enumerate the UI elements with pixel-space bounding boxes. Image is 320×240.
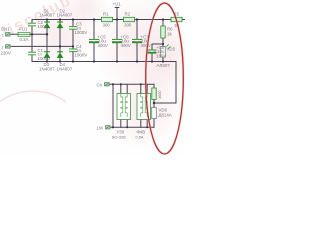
junctions subcircuit top line [112,83,142,85]
junctions top rail [46,18,164,20]
junction LED branch to C8 [162,43,164,45]
wire box1 pins [120,84,122,93]
resistor R5 [171,17,182,21]
transformer box T1 [117,93,131,120]
svg-text:Д814А: Д814А [159,113,172,118]
diode D1 [44,22,50,28]
capacitor C7 electrolytic [132,39,142,42]
svg-text:1: 1 [2,34,4,38]
svg-text:VD5: VD5 [167,47,176,52]
capacitor C1 [28,52,36,55]
capacitor C4 (snubber bottom) [69,49,77,52]
wire bypass link [112,84,114,127]
junction AC1 to bridge column 1 [46,33,48,35]
svg-text:R1: R1 [103,12,109,17]
junctions bottom rail [46,60,164,62]
wire subcircuit bottom line [111,126,154,128]
svg-text:FU1: FU1 [19,27,28,32]
wire C8 stub [152,44,163,62]
wire C6 / +U column [116,8,118,62]
wire subcircuit top line [110,83,154,85]
junction AC2 to snubber column [72,45,74,47]
wire bottom rail [32,61,176,63]
svg-text:ВО-32В: ВО-32В [112,134,126,139]
svg-text:АЛ307: АЛ307 [157,63,171,68]
svg-text:400V: 400V [141,43,151,48]
svg-text:0.3A: 0.3A [20,37,29,42]
junctions subcircuit bottom line [112,126,148,128]
wire C5 column [93,20,95,62]
capacitor C6 electrolytic [112,39,122,42]
svg-text:300: 300 [103,22,111,27]
diode D3 [44,52,50,58]
connector CN1 pin 2 [6,45,11,48]
svg-text:1000V: 1000V [75,52,88,57]
resistor R1 [102,17,113,21]
connector CN1 pin 1 [6,33,11,36]
svg-text:1000V: 1000V [75,30,88,35]
diode D4 [57,52,63,58]
wire LED branch column [162,20,164,62]
svg-text:1N4007: 1N4007 [39,13,55,18]
svg-text:160V: 160V [156,53,166,58]
wire left cap column [31,20,33,62]
resistor R6 vertical [161,26,165,38]
diode D2 [57,22,63,28]
svg-text:10000: 10000 [38,56,51,61]
junction AC1 to cap column [31,33,33,35]
svg-text:1М: 1М [97,125,103,130]
capacitor C3 (snubber top) [69,27,77,30]
svg-text:400V: 400V [121,43,131,48]
svg-text:2: 2 [2,46,4,50]
svg-text:3000: 3000 [158,91,162,99]
wire AC1 line [11,33,47,35]
svg-text:1N4007: 1N4007 [57,13,73,18]
svg-text:300: 300 [124,22,132,27]
wire bottom rail drop [154,62,176,104]
svg-text:400V: 400V [98,43,108,48]
wire C7 column [136,20,138,62]
pin 1M [106,126,111,129]
capacitor C5 electrolytic [89,39,99,42]
svg-text:Сп: Сп [97,82,103,87]
wire snubber cap column [72,20,74,62]
wire AC2 line [11,45,73,47]
wire bridge column 1 [46,20,48,62]
capacitor C2 [28,23,38,27]
junction AC2 to bridge column 2 [59,45,61,47]
svg-text:1k: 1k [167,32,172,37]
highlight ellipse [146,3,184,154]
resistor R7 vertical (bottom right) [152,88,156,100]
svg-text:+U1: +U1 [113,2,122,7]
svg-text:1N4007: 1N4007 [39,66,55,71]
wire zener branch [153,84,155,127]
svg-text:R2: R2 [125,12,131,17]
wire +U terminal tick [115,7,119,9]
pin Cn [105,83,110,86]
svg-text:CN1: CN1 [1,27,10,32]
svg-text:100n: 100n [38,24,48,29]
transformer box T2 [137,93,151,120]
wire top rail [32,19,185,21]
wire bridge column 2 [59,20,61,62]
wire box2 pins [140,84,142,93]
fuse FU1 [18,32,30,36]
capacitor C8 electrolytic [148,50,157,53]
svg-text:0,5А: 0,5А [136,134,144,139]
LED VD5 [161,44,171,57]
zener VD6 [152,108,157,119]
resistor R2 [124,17,135,21]
junction zener branch node [153,102,155,104]
svg-text:220V: 220V [1,51,11,56]
svg-text:1N4007: 1N4007 [57,66,73,71]
